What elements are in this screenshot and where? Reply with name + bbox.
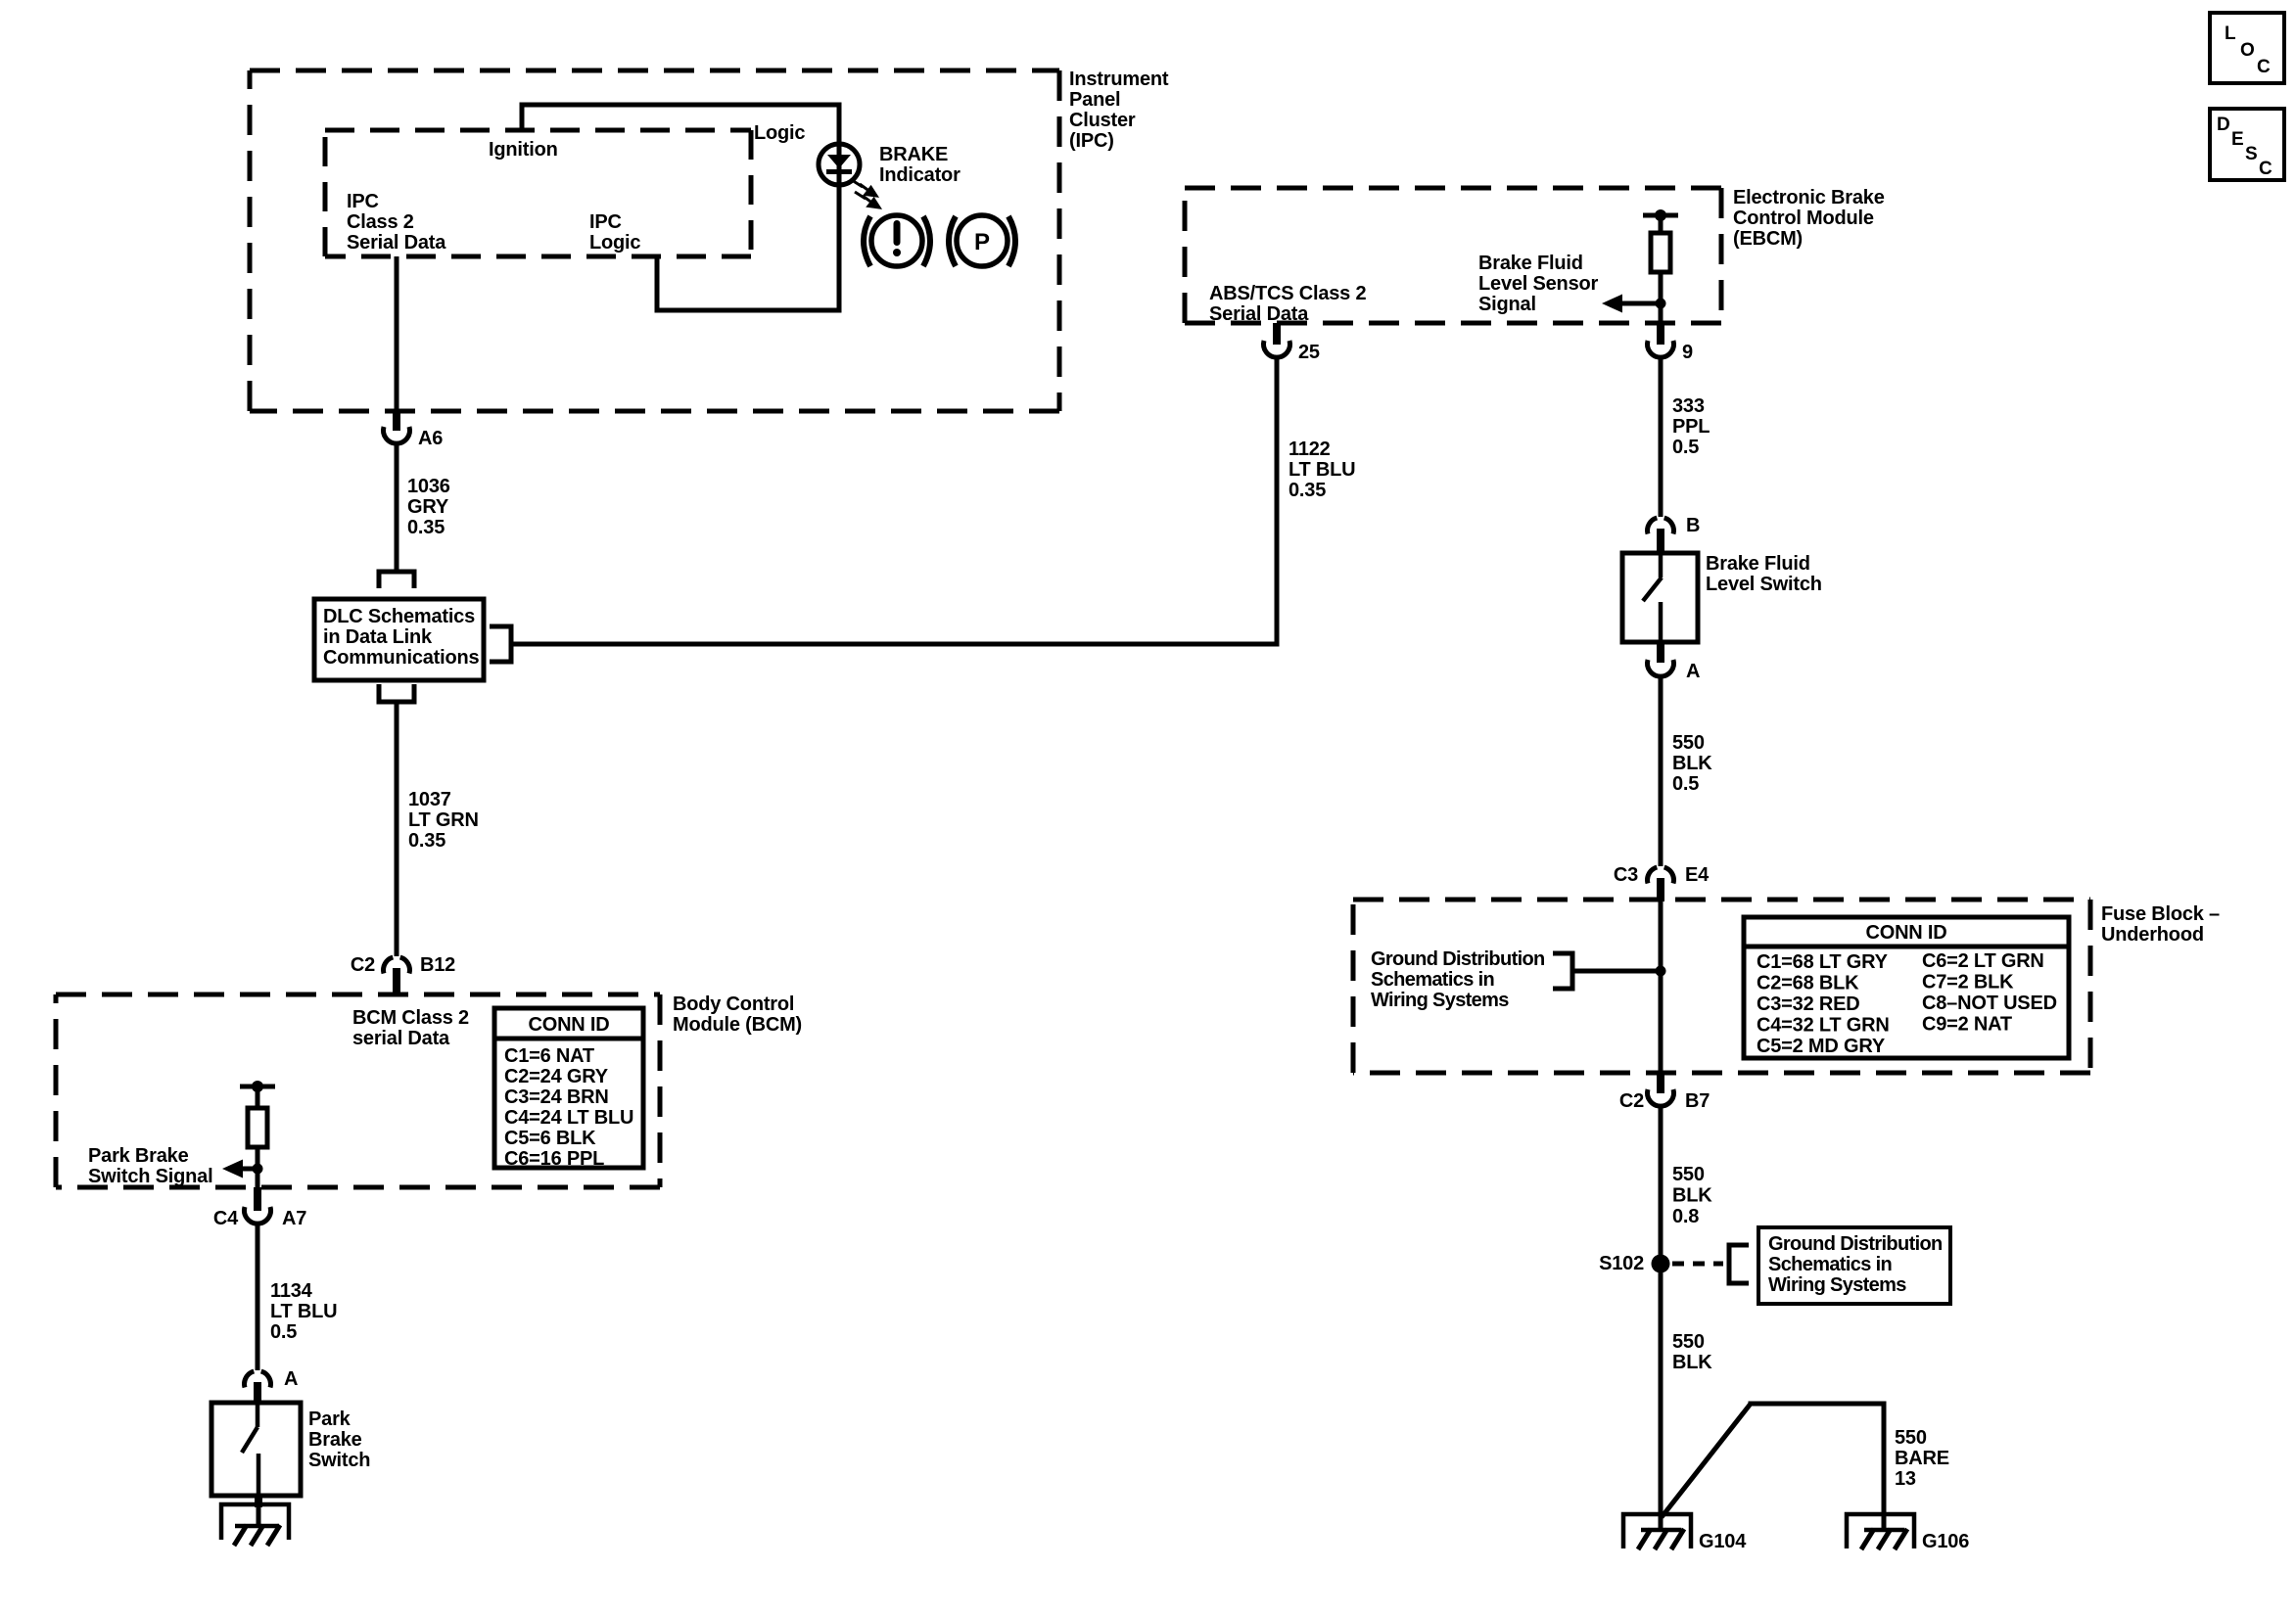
svg-text:DLC Schematics: DLC Schematics [323, 606, 475, 627]
svg-text:(IPC): (IPC) [1069, 130, 1114, 152]
fuse block dashed box [1353, 900, 2090, 1073]
svg-text:L: L [2225, 23, 2236, 44]
svg-text:LT BLU: LT BLU [1289, 459, 1355, 481]
label 550 BLK (below S102) [1672, 1331, 1712, 1373]
svg-text:550: 550 [1672, 1331, 1705, 1353]
wire through fuse block [1659, 880, 1663, 1074]
svg-text:A: A [284, 1368, 298, 1390]
label Park Brake Switch Signal [88, 1145, 212, 1187]
wire LED vertical [837, 105, 842, 310]
label Ground Distribution Schematics in Wiring Systems (fuse block) [1371, 948, 1545, 1011]
label Body Control Module (BCM) [673, 993, 802, 1036]
svg-text:Logic: Logic [754, 122, 805, 144]
svg-text:IPC: IPC [347, 191, 379, 212]
svg-text:Switch: Switch [308, 1450, 370, 1471]
ground (park brake switch) [221, 1496, 289, 1546]
bracket at ground distribution box [1729, 1245, 1749, 1283]
svg-text:C9=2 NAT: C9=2 NAT [1922, 1014, 2012, 1036]
svg-text:BARE: BARE [1895, 1448, 1949, 1469]
svg-text:550: 550 [1672, 1164, 1705, 1185]
svg-text:Brake Fluid: Brake Fluid [1706, 553, 1810, 575]
svg-text:C5=6 BLK: C5=6 BLK [504, 1128, 596, 1149]
EBCM dashed box [1185, 188, 1721, 323]
svg-text:Logic: Logic [589, 232, 640, 254]
svg-text:Serial Data: Serial Data [1209, 303, 1309, 325]
svg-text:C: C [2259, 159, 2273, 179]
splice S102 [1599, 1253, 1669, 1274]
LED emission arrows [852, 180, 879, 208]
svg-text:Instrument: Instrument [1069, 69, 1169, 90]
svg-text:9: 9 [1682, 342, 1693, 363]
svg-text:C4=24 LT BLU: C4=24 LT BLU [504, 1107, 633, 1129]
label IPC Logic [589, 211, 640, 254]
svg-text:S102: S102 [1599, 1253, 1644, 1274]
label Brake Fluid Level Sensor Signal [1478, 253, 1599, 315]
svg-text:C2=68 BLK: C2=68 BLK [1757, 973, 1859, 994]
park brake switch box [211, 1403, 301, 1496]
wire 550 BLK 0.5 [1659, 676, 1663, 866]
svg-text:serial Data: serial Data [352, 1028, 450, 1049]
IPC inner dashed logic box [325, 130, 751, 256]
EBCM internal resistor [1643, 209, 1678, 323]
svg-text:Park: Park [308, 1409, 351, 1430]
park brake symbol (P) [949, 215, 1015, 266]
svg-text:CONN ID: CONN ID [528, 1014, 609, 1036]
svg-text:333: 333 [1672, 395, 1705, 417]
wire branch to G106 [1662, 1404, 1751, 1517]
svg-text:C2: C2 [351, 954, 375, 976]
svg-text:(EBCM): (EBCM) [1733, 228, 1803, 250]
connector A (brake fluid level switch) [1647, 642, 1700, 682]
svg-text:C6=2 LT GRN: C6=2 LT GRN [1922, 950, 2044, 972]
wire elbow from IPC Logic [655, 256, 660, 310]
svg-text:Brake Fluid: Brake Fluid [1478, 253, 1583, 274]
svg-text:0.5: 0.5 [1672, 437, 1699, 458]
svg-text:A7: A7 [282, 1208, 306, 1229]
svg-text:C5=2 MD GRY: C5=2 MD GRY [1757, 1036, 1886, 1057]
svg-text:Communications: Communications [323, 647, 480, 669]
svg-text:Serial Data: Serial Data [347, 232, 446, 254]
svg-text:LT BLU: LT BLU [270, 1301, 337, 1322]
svg-text:E: E [2231, 129, 2244, 150]
svg-text:Cluster: Cluster [1069, 110, 1136, 131]
svg-text:C3=24 BRN: C3=24 BRN [504, 1086, 609, 1108]
svg-text:Park Brake: Park Brake [88, 1145, 189, 1167]
svg-text:Panel: Panel [1069, 89, 1120, 111]
svg-text:C8–NOT USED: C8–NOT USED [1922, 993, 2057, 1014]
svg-text:Ground Distribution: Ground Distribution [1768, 1233, 1943, 1255]
svg-text:Control Module: Control Module [1733, 208, 1874, 229]
fuse block CONN ID table [1744, 917, 2069, 1058]
label IPC Class 2 Serial Data [347, 191, 446, 254]
svg-text:Wiring Systems: Wiring Systems [1371, 990, 1509, 1011]
svg-text:0.8: 0.8 [1672, 1206, 1699, 1227]
svg-text:BRAKE: BRAKE [879, 144, 948, 165]
junction node on fuse block wire [1656, 966, 1666, 977]
svg-text:C4: C4 [213, 1208, 239, 1229]
svg-text:Signal: Signal [1478, 294, 1536, 315]
in-line connector above DLC box [379, 572, 414, 588]
svg-text:13: 13 [1895, 1468, 1916, 1490]
svg-text:Ground Distribution: Ground Distribution [1371, 948, 1545, 970]
svg-text:BLK: BLK [1672, 1352, 1712, 1373]
svg-text:Wiring Systems: Wiring Systems [1768, 1274, 1906, 1296]
park brake resistor in BCM [240, 1081, 275, 1187]
svg-text:Schematics in: Schematics in [1768, 1254, 1892, 1275]
connector C2 B7 [1619, 1073, 1710, 1112]
svg-text:550: 550 [1672, 732, 1705, 754]
wire 1122 labels [1289, 439, 1355, 501]
svg-text:G104: G104 [1699, 1531, 1747, 1552]
wire 1036 [395, 443, 399, 572]
svg-text:BCM Class 2: BCM Class 2 [352, 1007, 469, 1029]
LED BRAKE indicator [819, 144, 860, 185]
svg-text:C: C [2257, 57, 2271, 77]
brake fluid level sensor signal arrow [1602, 295, 1666, 313]
svg-text:Level Sensor: Level Sensor [1478, 273, 1599, 295]
connector B [1648, 515, 1701, 553]
svg-text:CONN ID: CONN ID [1865, 922, 1946, 944]
label Electronic Brake Control Module (EBCM) [1733, 187, 1885, 250]
svg-text:0.5: 0.5 [270, 1321, 297, 1343]
label 550 BARE 13 [1895, 1427, 1949, 1490]
connector C3 E4 [1614, 864, 1710, 901]
svg-text:E4: E4 [1685, 864, 1710, 886]
label BRAKE Indicator [879, 144, 961, 186]
connector C4 A7 [213, 1187, 306, 1229]
svg-text:Brake: Brake [308, 1429, 362, 1451]
svg-text:S: S [2245, 144, 2258, 164]
svg-text:C2=24 GRY: C2=24 GRY [504, 1066, 609, 1087]
svg-text:IPC: IPC [589, 211, 622, 233]
svg-text:GRY: GRY [407, 496, 449, 518]
ground G106 [1847, 1514, 1969, 1552]
park brake switch signal arrow [222, 1160, 263, 1178]
svg-text:C3=32 RED: C3=32 RED [1757, 993, 1859, 1015]
svg-text:Module (BCM): Module (BCM) [673, 1014, 802, 1036]
svg-text:1037: 1037 [408, 789, 451, 810]
svg-text:Indicator: Indicator [879, 164, 961, 186]
svg-text:A: A [1686, 661, 1700, 682]
bracket right of DLC box [490, 626, 511, 662]
svg-text:in Data Link: in Data Link [323, 626, 433, 648]
svg-text:Electronic Brake: Electronic Brake [1733, 187, 1885, 208]
label Brake Fluid Level Switch [1706, 553, 1822, 595]
DESC tab [2210, 109, 2284, 180]
svg-text:1122: 1122 [1289, 439, 1331, 460]
wire 1037 [395, 702, 399, 956]
brake warning symbol (!) [864, 215, 930, 266]
DLC Schematics box [314, 599, 484, 680]
dashed leader from S102 [1672, 1262, 1723, 1267]
wire DLC to ABS/TCS branch [511, 642, 1280, 647]
svg-text:0.35: 0.35 [408, 830, 445, 852]
svg-text:A6: A6 [418, 428, 443, 449]
IPC outer dashed box [250, 70, 1059, 411]
wire 550 BLK 0.8 [1659, 1106, 1663, 1530]
svg-text:0.5: 0.5 [1672, 773, 1699, 795]
wire 1134 [256, 1224, 260, 1370]
svg-text:B7: B7 [1685, 1090, 1710, 1112]
svg-text:B12: B12 [420, 954, 455, 976]
wire IPC serial data [395, 256, 399, 411]
connector A6 [384, 411, 444, 449]
in-line connector below DLC box [379, 684, 414, 702]
svg-text:0.35: 0.35 [407, 517, 445, 538]
svg-text:550: 550 [1895, 1427, 1927, 1449]
connector C2 B12 [351, 954, 455, 994]
svg-text:B: B [1686, 515, 1700, 536]
svg-text:Level Switch: Level Switch [1706, 574, 1822, 595]
svg-text:Body Control: Body Control [673, 993, 794, 1015]
svg-text:C2: C2 [1619, 1090, 1644, 1112]
svg-text:C1=6 NAT: C1=6 NAT [504, 1045, 594, 1067]
BCM CONN ID table [494, 1008, 643, 1170]
svg-text:PPL: PPL [1672, 416, 1710, 438]
svg-text:25: 25 [1298, 342, 1320, 363]
svg-text:C1=68 LT GRY: C1=68 LT GRY [1757, 951, 1889, 973]
label Park Brake Switch [308, 1409, 370, 1471]
label Fuse Block - Underhood [2101, 903, 2220, 946]
brake fluid level switch box [1622, 553, 1698, 642]
connector 25 [1263, 323, 1319, 363]
svg-text:C3: C3 [1614, 864, 1638, 886]
Ground Distribution reference box (S102) [1758, 1227, 1950, 1304]
connector A (park brake switch) [245, 1368, 299, 1403]
svg-text:G106: G106 [1922, 1531, 1969, 1552]
svg-text:C7=2 BLK: C7=2 BLK [1922, 972, 2014, 993]
connector 9 [1648, 323, 1694, 363]
label ABS/TCS Class 2 Serial Data [1209, 283, 1366, 325]
svg-text:0.35: 0.35 [1289, 480, 1326, 501]
label Instrument Panel Cluster (IPC) [1069, 69, 1169, 152]
svg-text:Ignition: Ignition [489, 139, 558, 161]
svg-text:Underhood: Underhood [2101, 924, 2204, 946]
svg-text:P: P [974, 229, 990, 255]
wire 333 PPL [1659, 357, 1663, 517]
svg-text:Switch Signal: Switch Signal [88, 1166, 212, 1187]
svg-text:LT GRN: LT GRN [408, 809, 479, 831]
svg-text:Fuse Block –: Fuse Block – [2101, 903, 2220, 925]
svg-text:1134: 1134 [270, 1280, 313, 1302]
LOC tab [2210, 13, 2284, 83]
ground G104 [1623, 1514, 1747, 1552]
BCM dashed box [56, 994, 660, 1187]
svg-text:C6=16 PPL: C6=16 PPL [504, 1148, 604, 1170]
wire ignition vertical [520, 105, 525, 130]
svg-text:Schematics in: Schematics in [1371, 969, 1494, 991]
svg-text:1036: 1036 [407, 476, 450, 497]
svg-text:D: D [2217, 115, 2230, 135]
svg-text:C4=32 LT GRN: C4=32 LT GRN [1757, 1015, 1890, 1037]
svg-text:ABS/TCS Class 2: ABS/TCS Class 2 [1209, 283, 1366, 304]
svg-text:BLK: BLK [1672, 1185, 1712, 1207]
svg-text:BLK: BLK [1672, 753, 1712, 774]
wire top horizontal to LED [520, 103, 842, 108]
svg-text:Class 2: Class 2 [347, 211, 414, 233]
label BCM Class 2 serial Data [352, 1007, 469, 1049]
bracket and wire to ground distribution reference [1553, 953, 1572, 989]
svg-text:O: O [2240, 40, 2255, 61]
